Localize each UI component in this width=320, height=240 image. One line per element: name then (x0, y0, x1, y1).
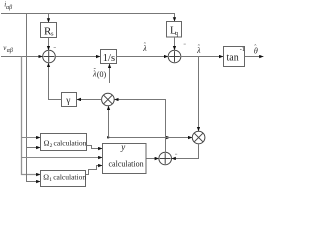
multiplier M2 (192, 131, 205, 144)
svg-text:(0): (0) (97, 70, 107, 79)
svg-text:1: 1 (49, 177, 52, 183)
block Rs (41, 23, 57, 38)
block Lq (167, 22, 182, 38)
summing junction S2 (168, 50, 181, 63)
svg-text:γ: γ (65, 96, 70, 106)
wire M2 to sum3 (172, 144, 199, 159)
svg-text:-1: -1 (240, 46, 245, 53)
block tan-1 (224, 46, 245, 67)
wire lambda0 to 1/s (109, 64, 111, 83)
wire omega2 lower in (27, 147, 41, 149)
wire i line (1, 14, 175, 22)
summing junction S3 (159, 152, 172, 165)
wire middle line (22, 157, 103, 159)
svg-text:calculation: calculation (109, 159, 144, 168)
svg-text:2: 2 (50, 143, 53, 149)
svg-text:calculation: calculation (53, 172, 86, 181)
block Omega2 calculation (41, 134, 87, 151)
block 1/s (101, 50, 117, 64)
wire i drop (27, 14, 41, 182)
block Omega1 calculation (41, 171, 87, 187)
wire junction to M1 bottom (108, 106, 110, 138)
block y calculation (103, 142, 147, 173)
label i_ab (4, 1, 12, 11)
junction dot (107, 136, 109, 138)
wire Rs to sum1 (48, 38, 50, 51)
wire theta out (245, 56, 264, 58)
svg-text:calculation: calculation (54, 138, 87, 147)
wire omega2 upper in (22, 137, 41, 139)
svg-text:tan: tan (227, 52, 239, 63)
wire gamma to sum1 (49, 63, 62, 100)
wire upper branch to M1 right (114, 100, 165, 138)
wire sum1 to 1/s (55, 56, 100, 58)
arrow junction right (166, 137, 171, 139)
multiplier M1 (102, 93, 115, 106)
svg-text:q: q (175, 30, 179, 37)
wire Lq to sum2 (174, 37, 176, 50)
wire M1 to gamma (77, 99, 102, 101)
wire 1/s to sum2 (117, 56, 169, 58)
block gamma (62, 93, 77, 107)
wire feedback drop (198, 57, 200, 132)
svg-text:s: s (51, 30, 54, 37)
sign minus S1 (54, 47, 56, 49)
label v_ab (3, 44, 13, 54)
wire sum3 riser (165, 138, 167, 153)
sign minus S3 (175, 153, 177, 155)
svg-text:1/s: 1/s (103, 53, 115, 64)
label lambda-hat 1 (142, 42, 147, 53)
wire v line (1, 56, 43, 58)
sign minus S2 (184, 43, 186, 45)
wire sum2 to tan (181, 56, 223, 58)
wire omega2 out (87, 146, 103, 149)
label theta-hat (254, 44, 258, 56)
wire ycalc to sum3 (146, 158, 159, 160)
svg-text:αβ: αβ (7, 48, 13, 54)
svg-text:αβ: αβ (6, 5, 12, 11)
label lambda-hat 2 (196, 44, 201, 55)
wire junction line to M2 (109, 137, 193, 139)
wire v drop (22, 57, 41, 175)
svg-text:y: y (120, 142, 125, 152)
summing junction S1 (43, 50, 56, 63)
wire i to Rs (48, 14, 50, 23)
wire omega1 staircase (86, 166, 103, 175)
label lambda-hat(0) (92, 68, 107, 80)
